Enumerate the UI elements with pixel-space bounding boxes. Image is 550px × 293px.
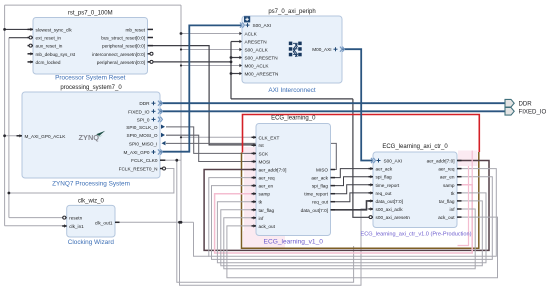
pin ctr samp	[443, 183, 461, 188]
pin ps7 SPI0_SCLK_O	[126, 125, 165, 130]
svg-text:mb_debug_sys_rst: mb_debug_sys_rst	[36, 52, 76, 57]
wire FCLK_CLK0 stub link	[166, 159, 181, 161]
wire aresetn to S00_ARESETN	[231, 57, 243, 59]
wire reset left vertical	[8, 38, 10, 218]
block ps7_0_axi_periph label	[268, 87, 315, 94]
pin axi S00_ARESETN	[239, 56, 277, 61]
svg-text:FIXED_IO: FIXED_IO	[128, 109, 150, 114]
block processing_system7_0 label	[52, 181, 130, 188]
svg-text:SPI_0: SPI_0	[137, 117, 150, 122]
pin axi S00_ACLK	[239, 48, 268, 53]
wire SPI0_MOSI_O to MOSI	[166, 135, 256, 161]
svg-text:clk_out1: clk_out1	[95, 220, 113, 225]
pin ps7 SPI0_MOSI_O	[126, 133, 165, 138]
svg-text:data_out[7:0]: data_out[7:0]	[376, 199, 403, 204]
pin rst bus_struct_reset[0:0]	[101, 36, 153, 41]
wire SPI0_SCLK_O to SCK	[166, 127, 256, 153]
svg-text:S00_AXI: S00_AXI	[384, 159, 403, 164]
svg-text:tar_flag: tar_flag	[439, 199, 455, 204]
wire aresetn over top	[231, 98, 353, 100]
block processing_system7_0 title	[60, 85, 122, 91]
junction clk loop B	[178, 221, 181, 224]
svg-text:inf: inf	[259, 216, 265, 221]
block ECG_learning_axi_ctr_0 body	[373, 152, 457, 228]
pin rst interconnect_aresetn[0:0]	[92, 52, 153, 57]
svg-text:SCK: SCK	[259, 151, 270, 156]
svg-text:samp: samp	[259, 192, 271, 197]
wire aresetn down to s00_axi_aresetn	[353, 99, 370, 217]
svg-text:samp: samp	[443, 183, 455, 188]
wire clk to ACLK	[181, 33, 243, 35]
svg-text:aer_req: aer_req	[438, 167, 455, 172]
pin ECG samp	[252, 192, 271, 197]
svg-text:aer_ack: aer_ack	[311, 176, 328, 181]
pin ctr aer_addr[7:0]	[427, 159, 462, 164]
wire aresetn to ARESETN	[231, 41, 243, 43]
pin clk_wiz clk_in1	[62, 224, 84, 229]
pin ps7 SPI_0	[137, 117, 163, 123]
svg-text:aer_addr[7:0]: aer_addr[7:0]	[259, 168, 287, 173]
wire FCLK_CLK0 right vertical	[180, 5, 182, 222]
pin ECG data_out[7:0]	[301, 208, 335, 213]
svg-text:CLK_EXT: CLK_EXT	[259, 135, 280, 140]
pin ECG time_report	[304, 192, 335, 197]
pin ctr data_out[7:0]	[369, 199, 403, 204]
svg-text:aer_en: aer_en	[440, 175, 455, 180]
block clk_wiz_0 body	[67, 205, 115, 237]
svg-text:S00_ACLK: S00_ACLK	[245, 48, 269, 53]
svg-text:data_out[7:0]: data_out[7:0]	[301, 208, 328, 213]
svg-text:peripheral_reset[0:0]: peripheral_reset[0:0]	[102, 44, 145, 49]
svg-text:inf: inf	[450, 207, 456, 212]
svg-text:aer_en: aer_en	[259, 184, 274, 189]
pin rst peripheral_reset[0:0]	[102, 44, 153, 49]
block processing_system7_0 body	[22, 92, 160, 178]
pin ctr inf	[450, 207, 462, 212]
pin ECG aer_ack	[311, 176, 335, 181]
wire clk to CLK_EXT	[181, 136, 256, 138]
wire spi_flag	[331, 177, 374, 186]
pin ps7 FIXED_IO	[128, 109, 162, 115]
svg-text:req_out: req_out	[312, 200, 329, 205]
wire clk_out1 horizontal	[116, 221, 194, 223]
pin ps7 DDR	[139, 101, 162, 107]
svg-text:FIXED_IO: FIXED_IO	[519, 109, 547, 116]
pin ECG req_out	[312, 200, 335, 205]
block ECG_learning_axi_ctr_0 title	[382, 144, 448, 150]
pin ctr aer_ack	[369, 167, 393, 172]
svg-text:ps7_0_axi_periph: ps7_0_axi_periph	[268, 9, 315, 15]
pin ctr spi_flag	[369, 175, 393, 180]
svg-text:time_report: time_report	[376, 183, 400, 188]
selection highlight band right	[458, 151, 478, 167]
block rst_ps7_0_100M title	[68, 11, 113, 17]
wire samp echo pink	[458, 166, 469, 246]
wire clk to S00_ACLK	[181, 49, 243, 51]
pin rst ext_reset_in	[28, 36, 62, 41]
block ECG_learning_axi_ctr_0 label	[361, 232, 472, 238]
block rst_ps7_0_100M body	[33, 18, 148, 75]
svg-text:bus_struct_reset[0:0]: bus_struct_reset[0:0]	[101, 36, 145, 41]
svg-text:rst_ps7_0_100M: rst_ps7_0_100M	[68, 11, 113, 17]
svg-text:aux_reset_in: aux_reset_in	[36, 44, 63, 49]
pin ECG ack_out	[252, 224, 276, 229]
block clk_wiz_0 label	[68, 239, 115, 246]
svg-text:spi_flag: spi_flag	[312, 184, 329, 189]
junction aresetn M00_ARESETN	[230, 72, 233, 75]
svg-text:FCLK_RESET0_N: FCLK_RESET0_N	[119, 167, 158, 172]
wire clk loop A	[177, 160, 354, 282]
svg-text:ECG_learning_v1_0: ECG_learning_v1_0	[264, 239, 324, 246]
svg-text:Processor System Reset: Processor System Reset	[55, 75, 126, 82]
svg-text:processing_system7_0: processing_system7_0	[60, 85, 122, 91]
wire ack_out feedback	[227, 217, 498, 278]
svg-text:clk_in1: clk_in1	[69, 224, 84, 229]
junction clk M00_ACLK	[180, 64, 182, 66]
pin ECG MISO	[316, 168, 335, 173]
wire aer_ack	[331, 169, 374, 178]
svg-text:tar_flag: tar_flag	[259, 208, 275, 213]
svg-text:M00_ACLK: M00_ACLK	[245, 64, 270, 69]
svg-text:mb_reset: mb_reset	[125, 27, 145, 32]
svg-text:S00_ARESETN: S00_ARESETN	[245, 56, 278, 61]
pin ctr time_report	[369, 183, 400, 188]
svg-text:ext_reset_in: ext_reset_in	[36, 36, 62, 41]
svg-text:slowest_sync_clk: slowest_sync_clk	[36, 27, 73, 32]
pin ECG aer_en	[252, 184, 274, 189]
icon axi interconnect	[289, 42, 302, 57]
pin ECG CLK_EXT	[252, 135, 280, 140]
svg-text:ACLK: ACLK	[245, 32, 258, 37]
icon ZYNQ logo	[79, 131, 106, 142]
svg-text:time_report: time_report	[304, 192, 328, 197]
external port DDR	[505, 99, 532, 107]
svg-text:M00_AXI: M00_AXI	[312, 47, 331, 52]
wire time_report	[331, 185, 374, 194]
pin rst slowest_sync_clk	[28, 27, 73, 32]
svg-text:DDR: DDR	[519, 100, 533, 107]
junction clk_out1	[180, 221, 183, 224]
junction aresetn feed	[230, 61, 233, 64]
junction aresetn S00_ARESETN	[230, 56, 233, 59]
wire FCLK_CLK0 to slowest_sync_clk	[5, 28, 34, 30]
wire FCLK_CLK0 top loop	[5, 4, 181, 6]
svg-text:ack_out: ack_out	[259, 224, 276, 229]
svg-text:SPI0_MISO_I: SPI0_MISO_I	[129, 141, 158, 146]
svg-text:clk_wiz_0: clk_wiz_0	[78, 198, 105, 204]
svg-text:s00_axi_aclk: s00_axi_aclk	[376, 207, 404, 212]
bus M00_AXI to ctr S00_AXI	[342, 49, 373, 160]
wire FCLK_CLK0 to clk_in1	[5, 225, 67, 227]
wire inf feedback	[224, 209, 475, 269]
bus FIXED_IO	[160, 110, 505, 112]
svg-text:ZYNQ7 Processing System: ZYNQ7 Processing System	[52, 181, 130, 188]
wire tar_flag feedback	[221, 201, 483, 266]
pin axi M00_ARESETN	[239, 72, 278, 77]
svg-text:aer_req: aer_req	[259, 176, 276, 181]
svg-text:S00_AXI: S00_AXI	[253, 23, 272, 28]
wire peripheral_reset	[148, 46, 256, 145]
svg-text:M_AXI_GP0_ACLK: M_AXI_GP0_ACLK	[25, 134, 67, 139]
pin ECG MOSI	[252, 160, 271, 165]
wire aresetn to M00_ARESETN	[231, 73, 243, 75]
block ps7_0_axi_periph body	[242, 16, 342, 83]
icon axi expand	[244, 16, 250, 22]
svg-text:peripheral_aresetn[0:0]: peripheral_aresetn[0:0]	[97, 60, 145, 65]
pin ps7 SPI0_MISO_I	[129, 141, 166, 146]
wire peripheral_aresetn feed	[148, 61, 231, 63]
pin ctr s00_axi_aclk	[369, 207, 404, 212]
pin ctr tk	[451, 191, 462, 196]
pin axi S00_AXI	[240, 23, 271, 29]
pin clk_wiz clk_out1	[95, 220, 119, 225]
wire FCLK_CLK0 left vertical	[4, 5, 6, 226]
pin ctr req_out	[369, 191, 393, 196]
wire MISO to SPI0_MISO_I	[166, 143, 336, 169]
pin axi M00_AXI	[312, 47, 344, 53]
svg-text:ECG_learning_axi_ctr_0: ECG_learning_axi_ctr_0	[382, 144, 448, 150]
wire aresetn vertical	[230, 42, 232, 99]
pin rst mb_reset	[125, 27, 153, 32]
external port FIXED_IO	[505, 108, 547, 116]
pin axi M00_ACLK	[239, 64, 269, 69]
junction FCLK slowest_sync_clk	[3, 28, 6, 31]
wire clk_out1 down	[194, 222, 210, 256]
svg-text:ECG_learning_axi_ctr_v1.0 (Pre: ECG_learning_axi_ctr_v1.0 (Pre-Productio…	[361, 232, 472, 238]
wire samp feedback	[215, 185, 473, 253]
block rst_ps7_0_100M label	[55, 75, 126, 82]
wire highlighted net brown	[242, 152, 479, 248]
svg-text:s00_axi_aresetn: s00_axi_aresetn	[376, 215, 411, 220]
wire reset to resetn	[9, 217, 64, 219]
block clk_wiz_0 title	[78, 198, 105, 204]
pin ECG rst	[252, 143, 265, 148]
pin ps7 M_AXI_GP0_ACLK	[17, 134, 67, 139]
junction clk aclk	[175, 159, 178, 162]
svg-text:SPI0_MOSI_O: SPI0_MOSI_O	[126, 133, 157, 138]
svg-text:dcm_locked: dcm_locked	[36, 60, 61, 65]
svg-text:SPI0_SCLK_O: SPI0_SCLK_O	[126, 125, 158, 130]
svg-text:ZYNQ: ZYNQ	[79, 133, 100, 142]
pin ps7 FCLK_CLK0	[131, 158, 165, 163]
wire FCLK_RESET0_N jog	[9, 169, 174, 194]
wire aer_en feedback	[212, 177, 493, 260]
wire pink highlight upper	[471, 151, 473, 185]
svg-text:DDR: DDR	[139, 101, 150, 106]
pin ECG tk	[252, 200, 263, 205]
selection highlight strip 2	[243, 231, 285, 248]
pin rst peripheral_aresetn[0:0]	[97, 60, 153, 65]
svg-text:rst: rst	[259, 143, 265, 148]
wire clk to M00_ACLK	[181, 65, 243, 67]
wire FCLK_CLK0 to M_AXI_GP0_ACLK	[5, 135, 23, 137]
junction FCLK M_AXI_GP0_ACLK	[3, 134, 6, 137]
svg-text:MISO: MISO	[316, 168, 328, 173]
junction clk CLK_EXT	[180, 136, 182, 138]
wire aer_req feedback	[209, 169, 497, 257]
pin ECG inf	[252, 216, 265, 221]
svg-text:aer_ack: aer_ack	[376, 167, 393, 172]
pin ctr tar_flag	[439, 199, 462, 204]
pin ECG SCK	[252, 151, 270, 156]
svg-text:MOSI: MOSI	[259, 160, 271, 165]
wire clk loop B to s00_axi_aclk	[180, 209, 374, 285]
pin ctr S00_AXI	[371, 158, 402, 164]
wire req_out	[331, 193, 374, 202]
pin clk_wiz resetn	[62, 216, 82, 221]
svg-text:ack_out: ack_out	[438, 215, 455, 220]
svg-text:aer_addr[7:0]: aer_addr[7:0]	[427, 159, 455, 164]
bus DDR	[160, 102, 505, 104]
junction reset net	[7, 192, 10, 195]
pin ctr aer_req	[438, 167, 461, 172]
wire data_out bus	[331, 201, 374, 210]
selection highlight strip	[244, 147, 257, 248]
junction clk ACLK	[180, 32, 183, 35]
pin ctr s00_axi_aresetn	[369, 215, 411, 220]
pin ECG spi_flag	[312, 184, 335, 189]
svg-text:FCLK_CLK0: FCLK_CLK0	[131, 158, 158, 163]
svg-text:spi_flag: spi_flag	[376, 175, 393, 180]
svg-text:ECG_learning_0: ECG_learning_0	[271, 116, 316, 122]
wire tk feedback	[217, 193, 486, 263]
svg-text:M_AXI_GP0: M_AXI_GP0	[123, 150, 149, 155]
pin rst aux_reset_in	[28, 44, 63, 49]
svg-text:ARESETN: ARESETN	[245, 40, 267, 45]
svg-text:resetn: resetn	[69, 216, 82, 221]
junction clk S00_ACLK	[180, 48, 182, 50]
pin ctr aer_en	[440, 175, 462, 180]
block ECG_learning_0 body	[256, 124, 331, 236]
pin rst dcm_locked	[28, 60, 61, 65]
pin ECG aer_req	[252, 176, 276, 181]
wire highlighted net red	[243, 115, 480, 153]
svg-text:AXI Interconnect: AXI Interconnect	[268, 87, 315, 94]
svg-text:Clocking Wizard: Clocking Wizard	[68, 239, 115, 246]
svg-text:interconnect_aresetn[0:0]: interconnect_aresetn[0:0]	[92, 52, 145, 57]
wire reset to ext_reset_in	[9, 37, 31, 39]
pin ps7 FCLK_RESET0_N	[119, 167, 166, 172]
block ECG_learning_0 label	[264, 239, 324, 246]
pin ECG tar_flag	[252, 208, 275, 213]
pin ctr ack_out	[438, 215, 461, 220]
svg-text:M00_ARESETN: M00_ARESETN	[245, 72, 279, 77]
block ps7_0_axi_periph title	[268, 9, 315, 15]
bus M_AXI_GP0 to S00_AXI	[160, 25, 242, 151]
pin ECG aer_addr[7:0]	[252, 168, 287, 173]
pin ps7 M_AXI_GP0	[123, 149, 162, 155]
pin axi ACLK	[239, 32, 257, 37]
pin axi ARESETN	[239, 40, 266, 45]
svg-text:req_out: req_out	[376, 191, 393, 196]
wire aer_addr bus feedback	[204, 161, 489, 251]
block ECG_learning_0 title	[271, 116, 316, 122]
pin rst mb_debug_sys_rst	[28, 52, 76, 57]
